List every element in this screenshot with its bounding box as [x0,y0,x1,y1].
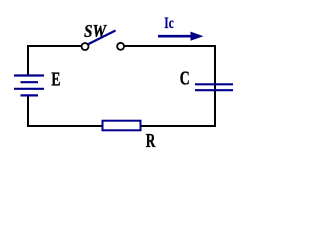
wire top-left horizontal [27,45,82,47]
wire left vertical upper [27,45,29,76]
capacitor C plate bottom [195,89,233,91]
switch SW left contact circle [82,43,89,50]
wire left vertical lower [27,96,29,128]
svg-text:SW: SW [84,21,108,41]
capacitor C plate top [195,83,233,85]
svg-text:C: C [180,68,190,90]
svg-text:R: R [146,130,156,152]
wire bottom horizontal [27,125,215,127]
wire right vertical [214,45,216,127]
battery E plate short bottom [21,94,39,96]
battery E plate long top [14,74,44,76]
svg-text:Ic: Ic [164,15,173,32]
battery E plate short [21,81,39,83]
resistor R box [103,121,141,131]
wire top-right horizontal [124,45,216,47]
current arrow Ic shaft [158,35,192,38]
current arrow Ic head [191,32,204,41]
switch SW right contact circle [117,43,124,50]
switch SW blade [89,31,116,45]
svg-text:E: E [51,68,60,90]
battery E plate long [14,88,44,90]
